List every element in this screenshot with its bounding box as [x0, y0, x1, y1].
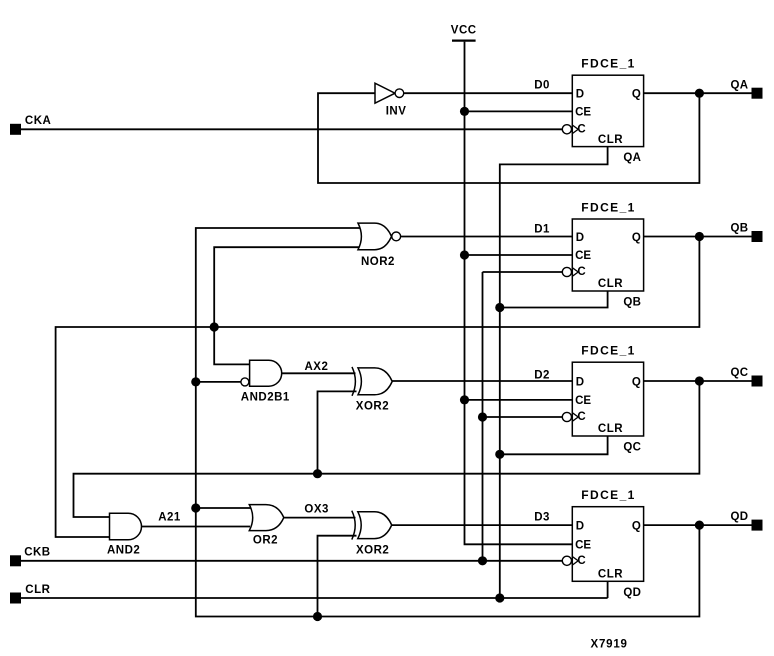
svg-text:CKA: CKA — [25, 115, 51, 127]
wire QB feedback to AND2 lower input — [56, 237, 700, 538]
wire OX3 from OR2 output to XOR2 upper input — [284, 517, 356, 519]
svg-text:D2: D2 — [534, 369, 550, 381]
input terminal CKB — [10, 547, 51, 567]
svg-text:OR2: OR2 — [253, 535, 278, 547]
svg-text:QA: QA — [731, 79, 749, 91]
svg-text:NOR2: NOR2 — [361, 256, 395, 268]
power symbol VCC — [451, 25, 477, 41]
svg-text:CKB: CKB — [24, 547, 50, 559]
wire QB branch to AND2B1 upper input — [214, 327, 250, 364]
wire D2 from XOR2 output to D pin of U3 — [392, 380, 572, 382]
output terminal QC — [731, 367, 763, 386]
or gate OR2 — [249, 505, 283, 547]
wire CKB to C pin of U4 — [21, 560, 562, 562]
bubble on C pin of U4 — [562, 556, 571, 565]
net VCC vertical with elbow to CE of U4 — [465, 42, 573, 545]
svg-text:QC: QC — [731, 367, 749, 379]
wire QB branch to NOR2 lower input — [214, 247, 360, 327]
wire VCC to CE of U1 — [465, 110, 573, 112]
svg-text:D3: D3 — [534, 511, 550, 523]
svg-text:Q: Q — [632, 376, 641, 388]
svg-text:CLR: CLR — [598, 423, 623, 435]
svg-text:CLR: CLR — [598, 134, 623, 146]
svg-text:AND2B1: AND2B1 — [241, 392, 290, 404]
svg-text:CE: CE — [575, 540, 591, 552]
wire QD branch to XOR2 lower input — [318, 536, 357, 617]
junction QB branch — [210, 322, 219, 331]
junction QC branch — [313, 469, 322, 478]
svg-text:AX2: AX2 — [305, 361, 329, 373]
wire A21 from AND2 output to OR2 lower input — [142, 526, 251, 528]
svg-text:QC: QC — [623, 442, 641, 454]
svg-text:CE: CE — [575, 395, 591, 407]
svg-text:D: D — [576, 89, 584, 101]
junction QD branch at AND2B1 — [191, 377, 200, 386]
svg-text:D: D — [576, 376, 584, 388]
wire U1 CLR pin to clear rail — [500, 147, 608, 598]
input terminal CKA — [10, 115, 51, 135]
output terminal QD — [731, 511, 763, 530]
wire QC feedback to AND2 upper input — [74, 381, 700, 517]
bubble on C pin of U3 — [562, 412, 571, 421]
svg-text:QD: QD — [623, 587, 641, 599]
flip-flop U3 FDCE_1 (QC) — [572, 344, 643, 454]
wire Q output of U3 — [644, 380, 752, 382]
flip-flop U4 FDCE_1 (QD) — [572, 488, 643, 599]
svg-text:Q: Q — [632, 520, 641, 532]
wire QD branch to OR2 upper input — [196, 507, 251, 509]
junction VCC CE3 — [460, 395, 469, 404]
svg-text:CLR: CLR — [598, 569, 623, 581]
bubble on C pin of U1 — [562, 125, 571, 134]
junction VCC CE1 — [460, 107, 469, 116]
wire VCC to CE of U2 — [465, 254, 573, 256]
svg-text:QD: QD — [731, 511, 749, 523]
wire C pin branch of U3 — [483, 416, 563, 418]
svg-text:FDCE_1: FDCE_1 — [581, 200, 635, 214]
wire U2 CLR pin to clear rail — [500, 291, 608, 308]
svg-text:D: D — [576, 232, 584, 244]
wire U3 CLR pin to clear rail — [500, 436, 608, 454]
svg-text:OX3: OX3 — [304, 504, 329, 516]
wire U4 CLR pin — [607, 581, 609, 598]
xor gate XOR2 (lower) — [352, 511, 392, 557]
svg-text:CE: CE — [575, 107, 591, 119]
svg-text:XOR2: XOR2 — [356, 400, 389, 412]
and gate AND2 — [107, 513, 142, 556]
flip-flop U1 FDCE_1 (QA) — [572, 57, 643, 165]
svg-text:FDCE_1: FDCE_1 — [581, 488, 635, 502]
junction Q2 output — [695, 232, 704, 241]
junction CKB rail at CKB wire — [478, 556, 487, 565]
wire D0 from INV output to D pin of U1 — [404, 92, 573, 94]
svg-text:Q: Q — [632, 89, 641, 101]
xor gate XOR2 (upper) — [352, 367, 392, 413]
svg-text:QB: QB — [623, 297, 641, 309]
output terminal QB — [731, 223, 763, 242]
svg-text:INV: INV — [386, 106, 407, 118]
junction QD branch at OR2 — [191, 503, 200, 512]
svg-text:X7919: X7919 — [591, 638, 628, 650]
svg-text:Q: Q — [632, 232, 641, 244]
wire QD branch to AND2B1 inverted input — [196, 381, 241, 383]
svg-text:QA: QA — [623, 152, 641, 164]
svg-text:FDCE_1: FDCE_1 — [581, 57, 635, 71]
wire D1 from NOR2 output to D pin of U2 — [401, 236, 573, 238]
flip-flop U2 FDCE_1 (QB) — [572, 200, 643, 308]
wire QD net vertical to NOR2 upper input — [196, 228, 700, 617]
svg-text:FDCE_1: FDCE_1 — [581, 344, 635, 358]
svg-text:CLR: CLR — [25, 584, 50, 596]
wire CLR net to U4 CLR pin — [21, 597, 608, 599]
output terminal QA — [731, 79, 763, 98]
wire VCC to CE of U3 — [465, 399, 573, 401]
svg-text:CE: CE — [575, 250, 591, 262]
svg-text:D1: D1 — [534, 224, 550, 236]
wire AX2 from AND2B1 output to XOR2 upper input — [282, 372, 356, 374]
svg-text:XOR2: XOR2 — [356, 545, 389, 557]
junction Q3 output — [695, 376, 704, 385]
input terminal CLR — [10, 584, 51, 603]
and gate AND2B1 — [241, 360, 290, 403]
wire Q output of U1 — [644, 92, 752, 94]
wire QA feedback to INV input — [318, 93, 699, 183]
junction clear rail U3 — [495, 450, 504, 459]
nor gate NOR2 — [358, 223, 401, 268]
svg-text:A21: A21 — [158, 511, 181, 523]
junction QD branch at XOR2 — [313, 612, 322, 621]
junction clear rail U2 — [495, 303, 504, 312]
wire CKA to C pin of U1 — [21, 128, 562, 130]
wire D3 from XOR2 output to D pin of U4 — [392, 524, 573, 526]
svg-text:CLR: CLR — [598, 278, 623, 290]
wire Q output of U2 — [644, 236, 752, 238]
wire QC branch to XOR2 lower input — [318, 391, 357, 473]
junction Q1 output — [695, 89, 704, 98]
wire CKB rail to C pins of U2 U3 — [483, 272, 563, 561]
svg-text:QB: QB — [731, 223, 749, 235]
bubble on C pin of U2 — [562, 267, 571, 276]
svg-text:AND2: AND2 — [107, 545, 140, 557]
svg-text:VCC: VCC — [451, 25, 477, 37]
svg-text:D0: D0 — [534, 79, 550, 91]
junction Q4 output — [695, 521, 704, 530]
svg-text:D: D — [576, 520, 584, 532]
junction clear rail to CLR net — [495, 593, 504, 602]
junction CKB rail at U3 — [478, 412, 487, 421]
junction VCC CE2 — [460, 250, 469, 259]
inverter INV — [375, 83, 406, 117]
wire Q output of U4 — [644, 524, 752, 526]
